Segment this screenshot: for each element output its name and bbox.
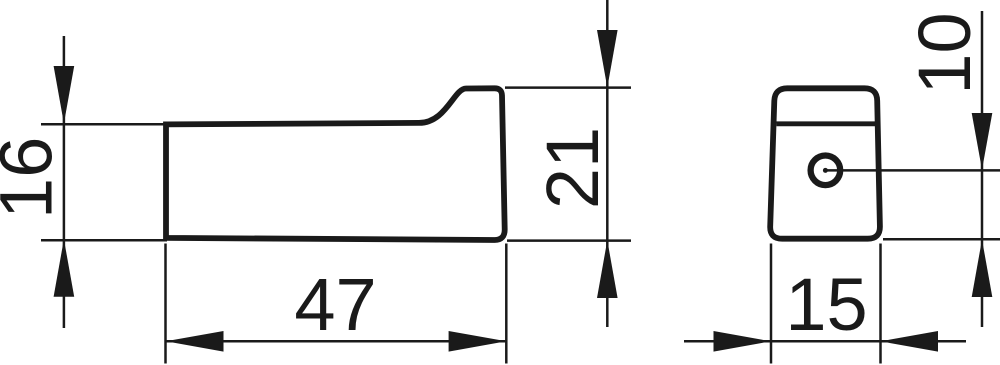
dimension 16: dimension line bbox=[63, 36, 66, 328]
dimension 15: right extension line bbox=[879, 244, 882, 364]
dimension 21: dimension line bbox=[606, 0, 609, 327]
dimension 21: extension line bottom bbox=[507, 239, 631, 242]
svg-text:47: 47 bbox=[294, 263, 376, 346]
dimension 21: lower arrowhead bbox=[597, 240, 618, 298]
svg-text:15: 15 bbox=[785, 263, 867, 346]
dimension 21: upper arrowhead bbox=[597, 30, 618, 88]
dimension 10: extension line bottom bbox=[883, 238, 1000, 241]
dimension 15: left arrowhead (points right) bbox=[714, 331, 772, 352]
dimension 47: left extension line bbox=[164, 244, 167, 364]
hole center dot bbox=[823, 168, 828, 173]
svg-text:16: 16 bbox=[0, 137, 68, 219]
dimension 15: left extension line bbox=[770, 244, 773, 364]
dimension 47: right arrowhead bbox=[449, 331, 507, 352]
svg-text:10: 10 bbox=[903, 12, 986, 94]
hook front view: body outline bbox=[770, 88, 880, 238]
hook front view: screw hole bbox=[811, 156, 841, 186]
hook front view: top band line bbox=[777, 121, 876, 126]
hook side view: part outline bbox=[166, 88, 505, 240]
dimension 16: extension line top bbox=[41, 123, 167, 126]
dimension 47: right extension line bbox=[505, 244, 508, 364]
dimension 10: lower arrowhead bbox=[972, 240, 993, 298]
dimension 15: right arrowhead (points left) bbox=[881, 331, 939, 352]
dimension 21: extension line top bbox=[505, 86, 631, 89]
dimension 16: lower arrowhead bbox=[54, 239, 75, 297]
dimension 10: upper arrowhead bbox=[972, 113, 993, 170]
dimension 47: left arrowhead bbox=[166, 331, 224, 352]
dimension 16: extension line bottom bbox=[41, 239, 167, 242]
dimension 47: dimension line bbox=[166, 340, 506, 343]
dimension 10: dimension line bbox=[981, 11, 984, 327]
svg-text:21: 21 bbox=[531, 127, 614, 209]
dimension 16: upper arrowhead bbox=[54, 66, 75, 124]
dimension 15: dimension line bbox=[684, 340, 966, 343]
hole center leader line bbox=[825, 169, 1000, 172]
